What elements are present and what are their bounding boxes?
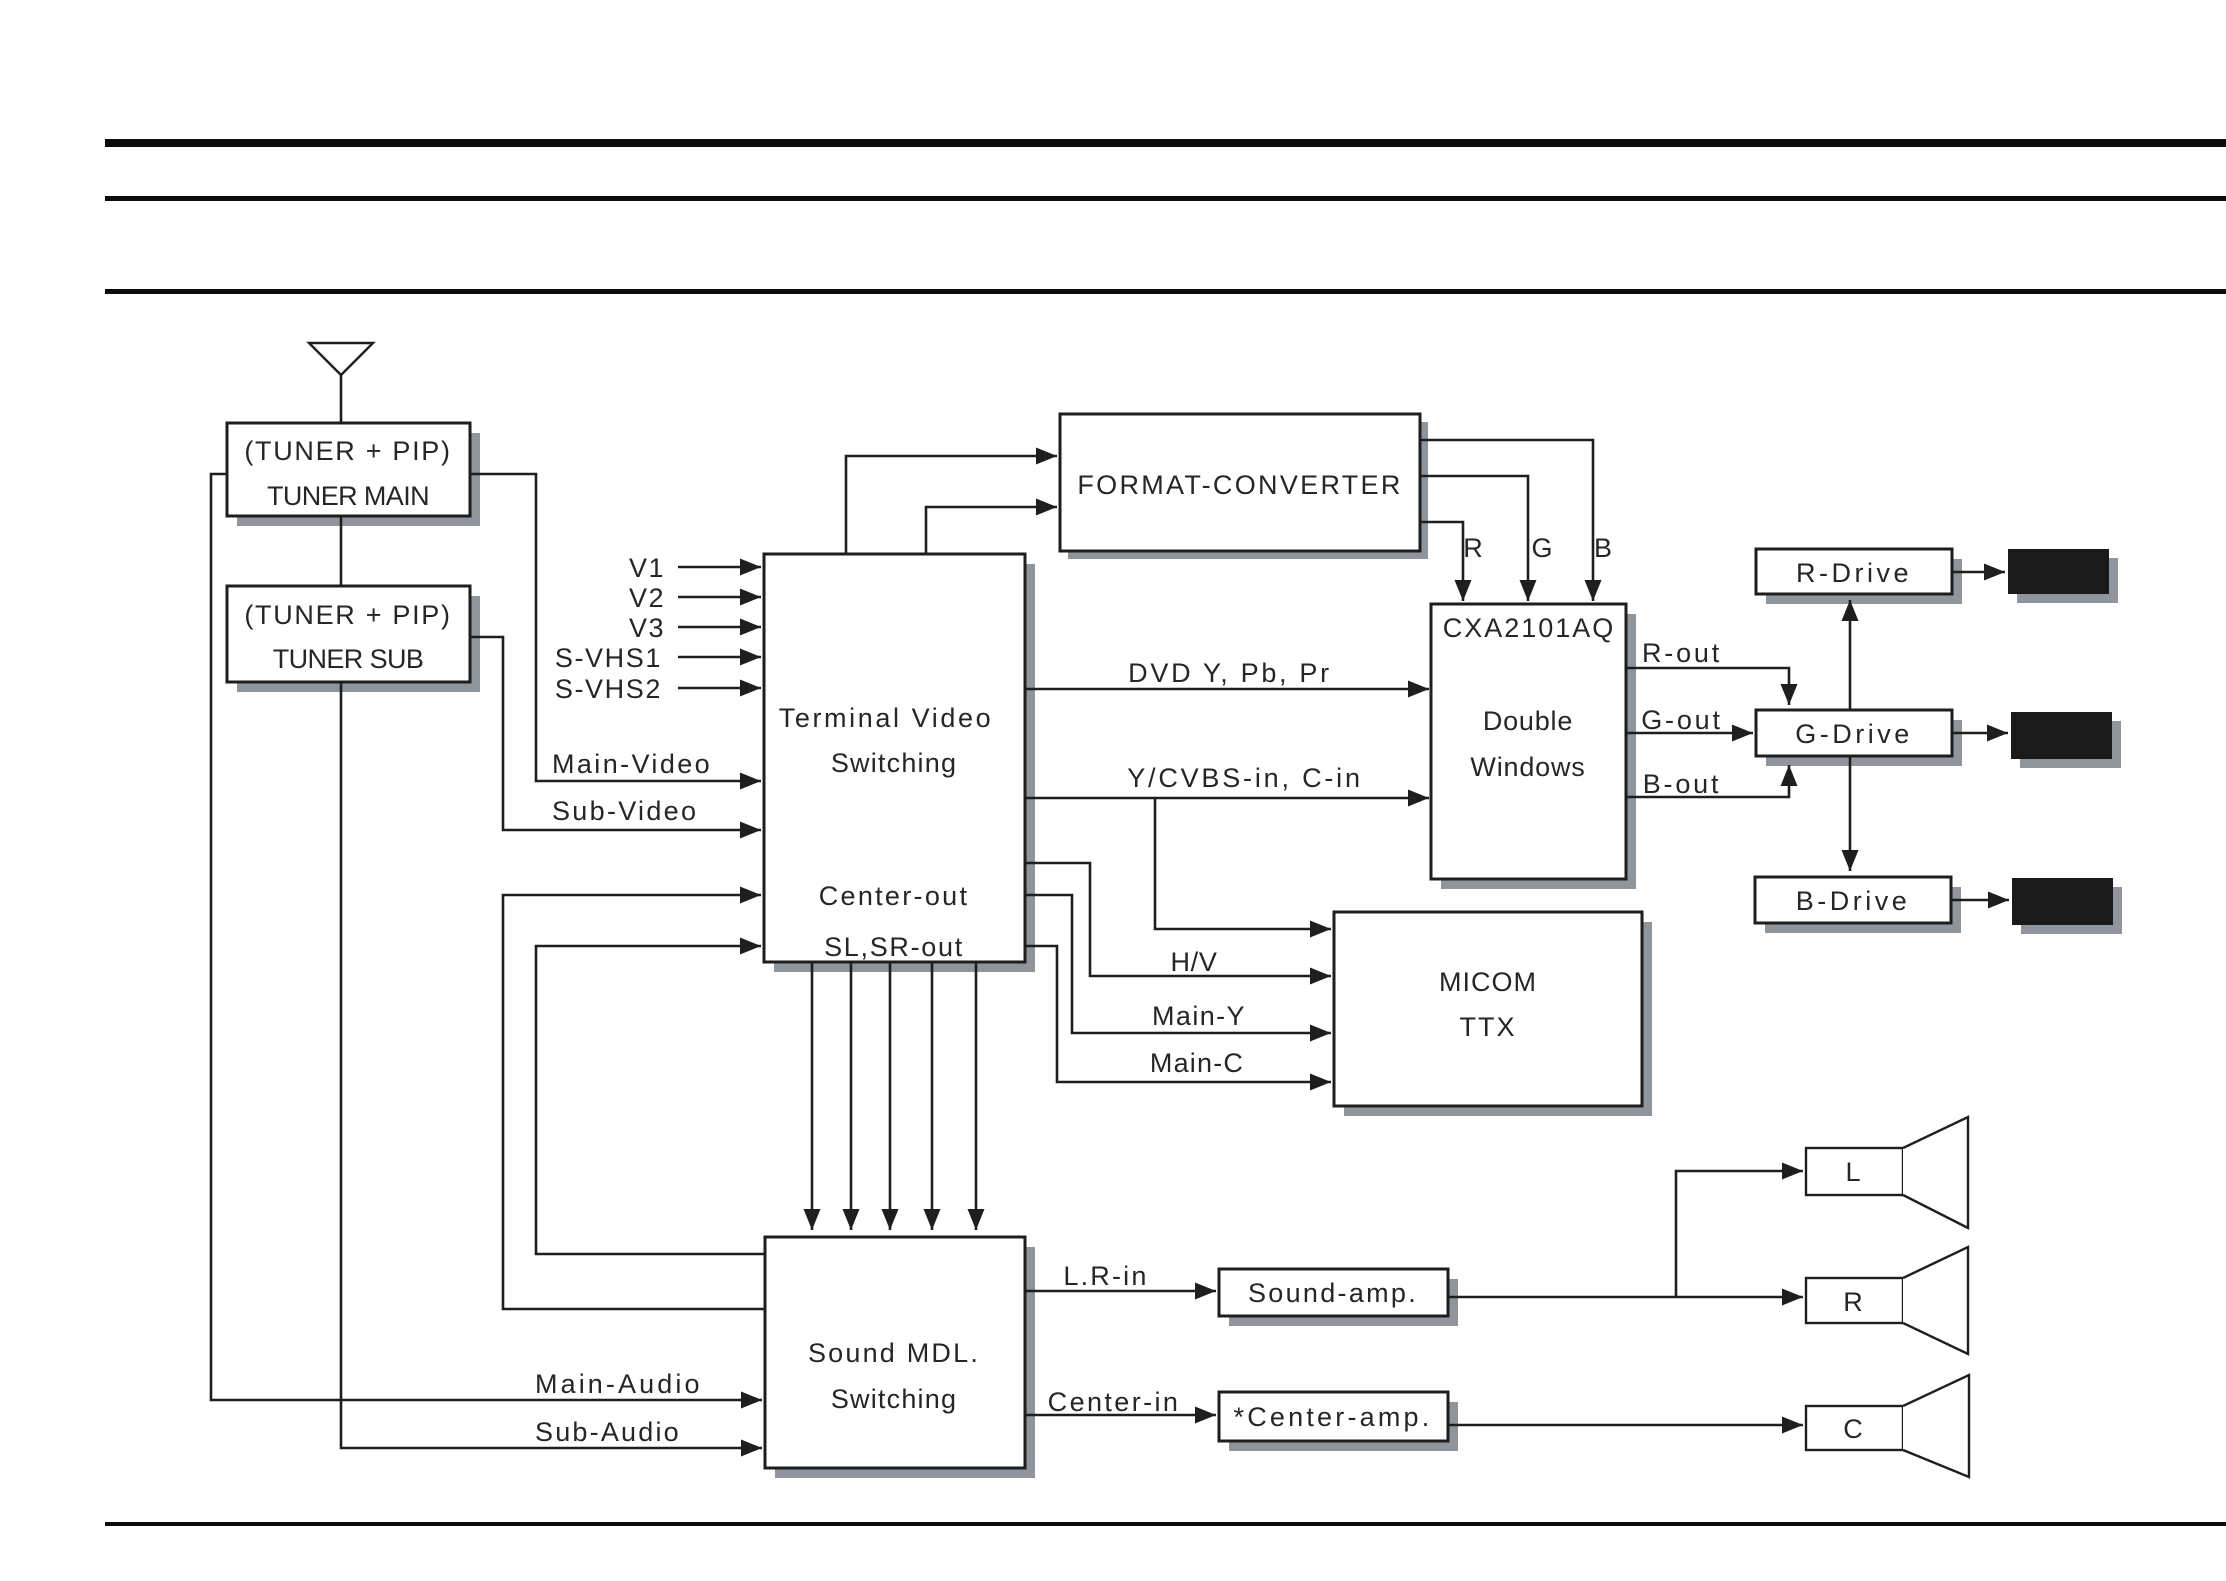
shadow of G CRT block bbox=[2020, 721, 2121, 768]
page rule third bbox=[105, 289, 2226, 294]
wire sound return SL,SR to Terminal bbox=[536, 946, 765, 1254]
svg-text:MICOM: MICOM bbox=[1439, 967, 1537, 997]
box speaker R bbox=[1806, 1278, 1903, 1323]
shadow of Center-amp bbox=[1229, 1402, 1458, 1451]
svg-text:Center-out: Center-out bbox=[819, 881, 970, 911]
wire Sub-Audio: TUNER SUB bottom down to Sound MDL bbox=[341, 682, 762, 1448]
svg-text:C: C bbox=[1843, 1414, 1865, 1444]
wire G-Drive to R-Drive bbox=[1849, 600, 1852, 710]
svg-text:R-out: R-out bbox=[1642, 638, 1722, 668]
svg-text:S-VHS2: S-VHS2 bbox=[555, 674, 662, 704]
antenna stem wire bbox=[340, 375, 343, 423]
box Sound-amp bbox=[1219, 1269, 1448, 1316]
box R-Drive bbox=[1756, 549, 1952, 594]
svg-text:Sub-Audio: Sub-Audio bbox=[535, 1417, 681, 1447]
wire B-out bbox=[1626, 765, 1789, 797]
svg-text:DVD Y, Pb, Pr: DVD Y, Pb, Pr bbox=[1128, 658, 1332, 688]
box speaker L bbox=[1806, 1148, 1903, 1195]
wire Terminal to Sound drop 1 bbox=[811, 962, 814, 1230]
shadow of CXA2101AQ bbox=[1441, 614, 1636, 889]
shadow of B CRT block bbox=[2021, 887, 2122, 934]
svg-text:V3: V3 bbox=[629, 613, 665, 643]
svg-text:B-Drive: B-Drive bbox=[1796, 886, 1911, 916]
svg-text:Switching: Switching bbox=[831, 748, 957, 778]
svg-text:Main-Audio: Main-Audio bbox=[535, 1369, 703, 1399]
box TUNER MAIN bbox=[227, 423, 470, 516]
wire L.R-in to Sound-amp bbox=[1025, 1290, 1216, 1293]
wire Center-in to Center-amp bbox=[1025, 1414, 1216, 1417]
wire R-Drive to CRT bbox=[1952, 571, 2005, 574]
box Sound MDL Switching bbox=[765, 1237, 1025, 1468]
wire TUNER MAIN to TUNER SUB bbox=[340, 516, 343, 586]
wire G-Drive to B-Drive bbox=[1849, 756, 1852, 871]
shadow of Sound MDL bbox=[775, 1247, 1035, 1478]
svg-text:Main-C: Main-C bbox=[1150, 1048, 1244, 1078]
wire Terminal to Sound drop 2 bbox=[850, 962, 853, 1230]
shadow of Terminal Video Switching bbox=[774, 564, 1035, 972]
svg-text:B: B bbox=[1594, 533, 1614, 563]
wire Terminal top to FORMAT-CONVERTER upper bbox=[846, 456, 1057, 554]
svg-text:SL,SR-out: SL,SR-out bbox=[824, 932, 964, 962]
wire H/V to MICOM bbox=[1025, 863, 1331, 976]
wire Y/CVBS branch to MICOM bbox=[1155, 798, 1331, 929]
page rule bottom bbox=[105, 1522, 2226, 1526]
wire G from FORMAT-CONVERTER to CXA bbox=[1420, 476, 1528, 601]
horn speaker R bbox=[1903, 1247, 1968, 1354]
antenna symbol bbox=[309, 343, 373, 375]
svg-text:Windows: Windows bbox=[1470, 752, 1585, 782]
svg-text:Center-in: Center-in bbox=[1048, 1387, 1181, 1417]
svg-text:(TUNER + PIP): (TUNER + PIP) bbox=[244, 436, 451, 466]
wire R-out bbox=[1626, 668, 1789, 705]
svg-text:TTX: TTX bbox=[1460, 1012, 1517, 1042]
svg-text:Sub-Video: Sub-Video bbox=[552, 796, 698, 826]
svg-text:Sound MDL.: Sound MDL. bbox=[808, 1338, 980, 1368]
svg-text:Terminal Video: Terminal Video bbox=[779, 703, 994, 733]
box TUNER SUB bbox=[227, 586, 470, 682]
wire Main-C to MICOM bbox=[1025, 946, 1331, 1082]
wire G-Drive to CRT bbox=[1952, 732, 2008, 735]
CRT block B bbox=[2012, 878, 2113, 925]
wire Sound-amp to R speaker bbox=[1448, 1296, 1803, 1299]
box MICOM TTX bbox=[1334, 912, 1642, 1106]
svg-text:Double: Double bbox=[1483, 706, 1573, 736]
svg-text:Switching: Switching bbox=[831, 1384, 957, 1414]
page rule thick top bbox=[105, 139, 2226, 147]
svg-text:S-VHS1: S-VHS1 bbox=[555, 643, 662, 673]
box Center-amp bbox=[1219, 1392, 1448, 1441]
svg-text:Main-Y: Main-Y bbox=[1152, 1001, 1246, 1031]
svg-text:B-out: B-out bbox=[1643, 769, 1722, 799]
svg-text:V1: V1 bbox=[629, 553, 665, 583]
shadow of R CRT block bbox=[2017, 558, 2118, 603]
wire Y/CVBS-in, C-in bbox=[1025, 797, 1429, 800]
horn speaker L bbox=[1903, 1117, 1968, 1228]
svg-text:TUNER SUB: TUNER SUB bbox=[273, 644, 424, 674]
CRT block G bbox=[2011, 712, 2112, 759]
wire G-out bbox=[1626, 732, 1753, 735]
svg-text:(TUNER + PIP): (TUNER + PIP) bbox=[244, 600, 451, 630]
wire Center-amp to C speaker bbox=[1448, 1424, 1803, 1427]
svg-text:G-out: G-out bbox=[1641, 705, 1723, 735]
svg-text:TUNER MAIN: TUNER MAIN bbox=[267, 481, 429, 511]
box speaker C bbox=[1806, 1406, 1903, 1450]
shadow of TUNER SUB bbox=[237, 596, 480, 692]
svg-text:H/V: H/V bbox=[1170, 947, 1217, 977]
wire B-Drive to CRT bbox=[1951, 899, 2009, 902]
svg-text:R: R bbox=[1463, 533, 1485, 563]
shadow of MICOM TTX bbox=[1344, 922, 1652, 1116]
svg-text:L: L bbox=[1845, 1157, 1862, 1187]
svg-text:R-Drive: R-Drive bbox=[1796, 558, 1912, 588]
svg-text:G: G bbox=[1531, 533, 1554, 563]
wire B from FORMAT-CONVERTER to CXA bbox=[1420, 440, 1593, 601]
shadow of FORMAT-CONVERTER bbox=[1068, 422, 1428, 559]
box FORMAT-CONVERTER bbox=[1060, 414, 1420, 551]
shadow of B-Drive bbox=[1765, 887, 1961, 933]
wire Sub-Video: TUNER SUB right down to Terminal bbox=[470, 637, 761, 830]
horn speaker C bbox=[1903, 1375, 1969, 1477]
wire V2 input bbox=[678, 596, 761, 599]
svg-text:Sound-amp.: Sound-amp. bbox=[1248, 1278, 1418, 1308]
wire branch to L speaker bbox=[1676, 1171, 1803, 1297]
CRT block R bbox=[2008, 549, 2109, 594]
wire R from FORMAT-CONVERTER to CXA bbox=[1420, 522, 1463, 601]
wire S-VHS2 input bbox=[678, 687, 761, 690]
svg-text:G-Drive: G-Drive bbox=[1795, 719, 1913, 749]
svg-text:R: R bbox=[1843, 1287, 1865, 1317]
wire Main-Y to MICOM bbox=[1025, 895, 1331, 1033]
box B-Drive bbox=[1755, 877, 1951, 923]
box G-Drive bbox=[1756, 710, 1952, 756]
wire Terminal top to FORMAT-CONVERTER lower bbox=[926, 507, 1057, 554]
wire Terminal to Sound drop 5 bbox=[975, 962, 978, 1230]
shadow of R-Drive bbox=[1766, 559, 1962, 604]
shadow of Sound-amp bbox=[1229, 1279, 1458, 1326]
svg-text:L.R-in: L.R-in bbox=[1063, 1261, 1148, 1291]
wire sound return Center to Terminal bbox=[503, 895, 765, 1309]
wire V3 input bbox=[678, 626, 761, 629]
svg-text:FORMAT-CONVERTER: FORMAT-CONVERTER bbox=[1077, 470, 1402, 500]
box Terminal Video Switching bbox=[764, 554, 1025, 962]
wire Main-Video: TUNER MAIN right down to Terminal bbox=[470, 474, 761, 781]
wire V1 input bbox=[678, 566, 761, 569]
page rule second bbox=[105, 196, 2226, 201]
shadow of TUNER MAIN bbox=[237, 433, 480, 526]
wire DVD Y,Pb,Pr bbox=[1025, 688, 1429, 691]
wire Terminal to Sound drop 3 bbox=[889, 962, 892, 1230]
svg-text:Y/CVBS-in, C-in: Y/CVBS-in, C-in bbox=[1127, 763, 1363, 793]
shadow of G-Drive bbox=[1766, 720, 1962, 766]
svg-text:CXA2101AQ: CXA2101AQ bbox=[1443, 613, 1616, 643]
svg-text:Main-Video: Main-Video bbox=[552, 749, 712, 779]
wire Terminal to Sound drop 4 bbox=[931, 962, 934, 1230]
wire Main-Audio: TUNER MAIN left down to Sound MDL bbox=[211, 474, 762, 1400]
svg-text:*Center-amp.: *Center-amp. bbox=[1234, 1402, 1433, 1432]
svg-text:V2: V2 bbox=[629, 583, 665, 613]
wire S-VHS1 input bbox=[678, 656, 761, 659]
box CXA2101AQ Double Windows bbox=[1431, 604, 1626, 879]
